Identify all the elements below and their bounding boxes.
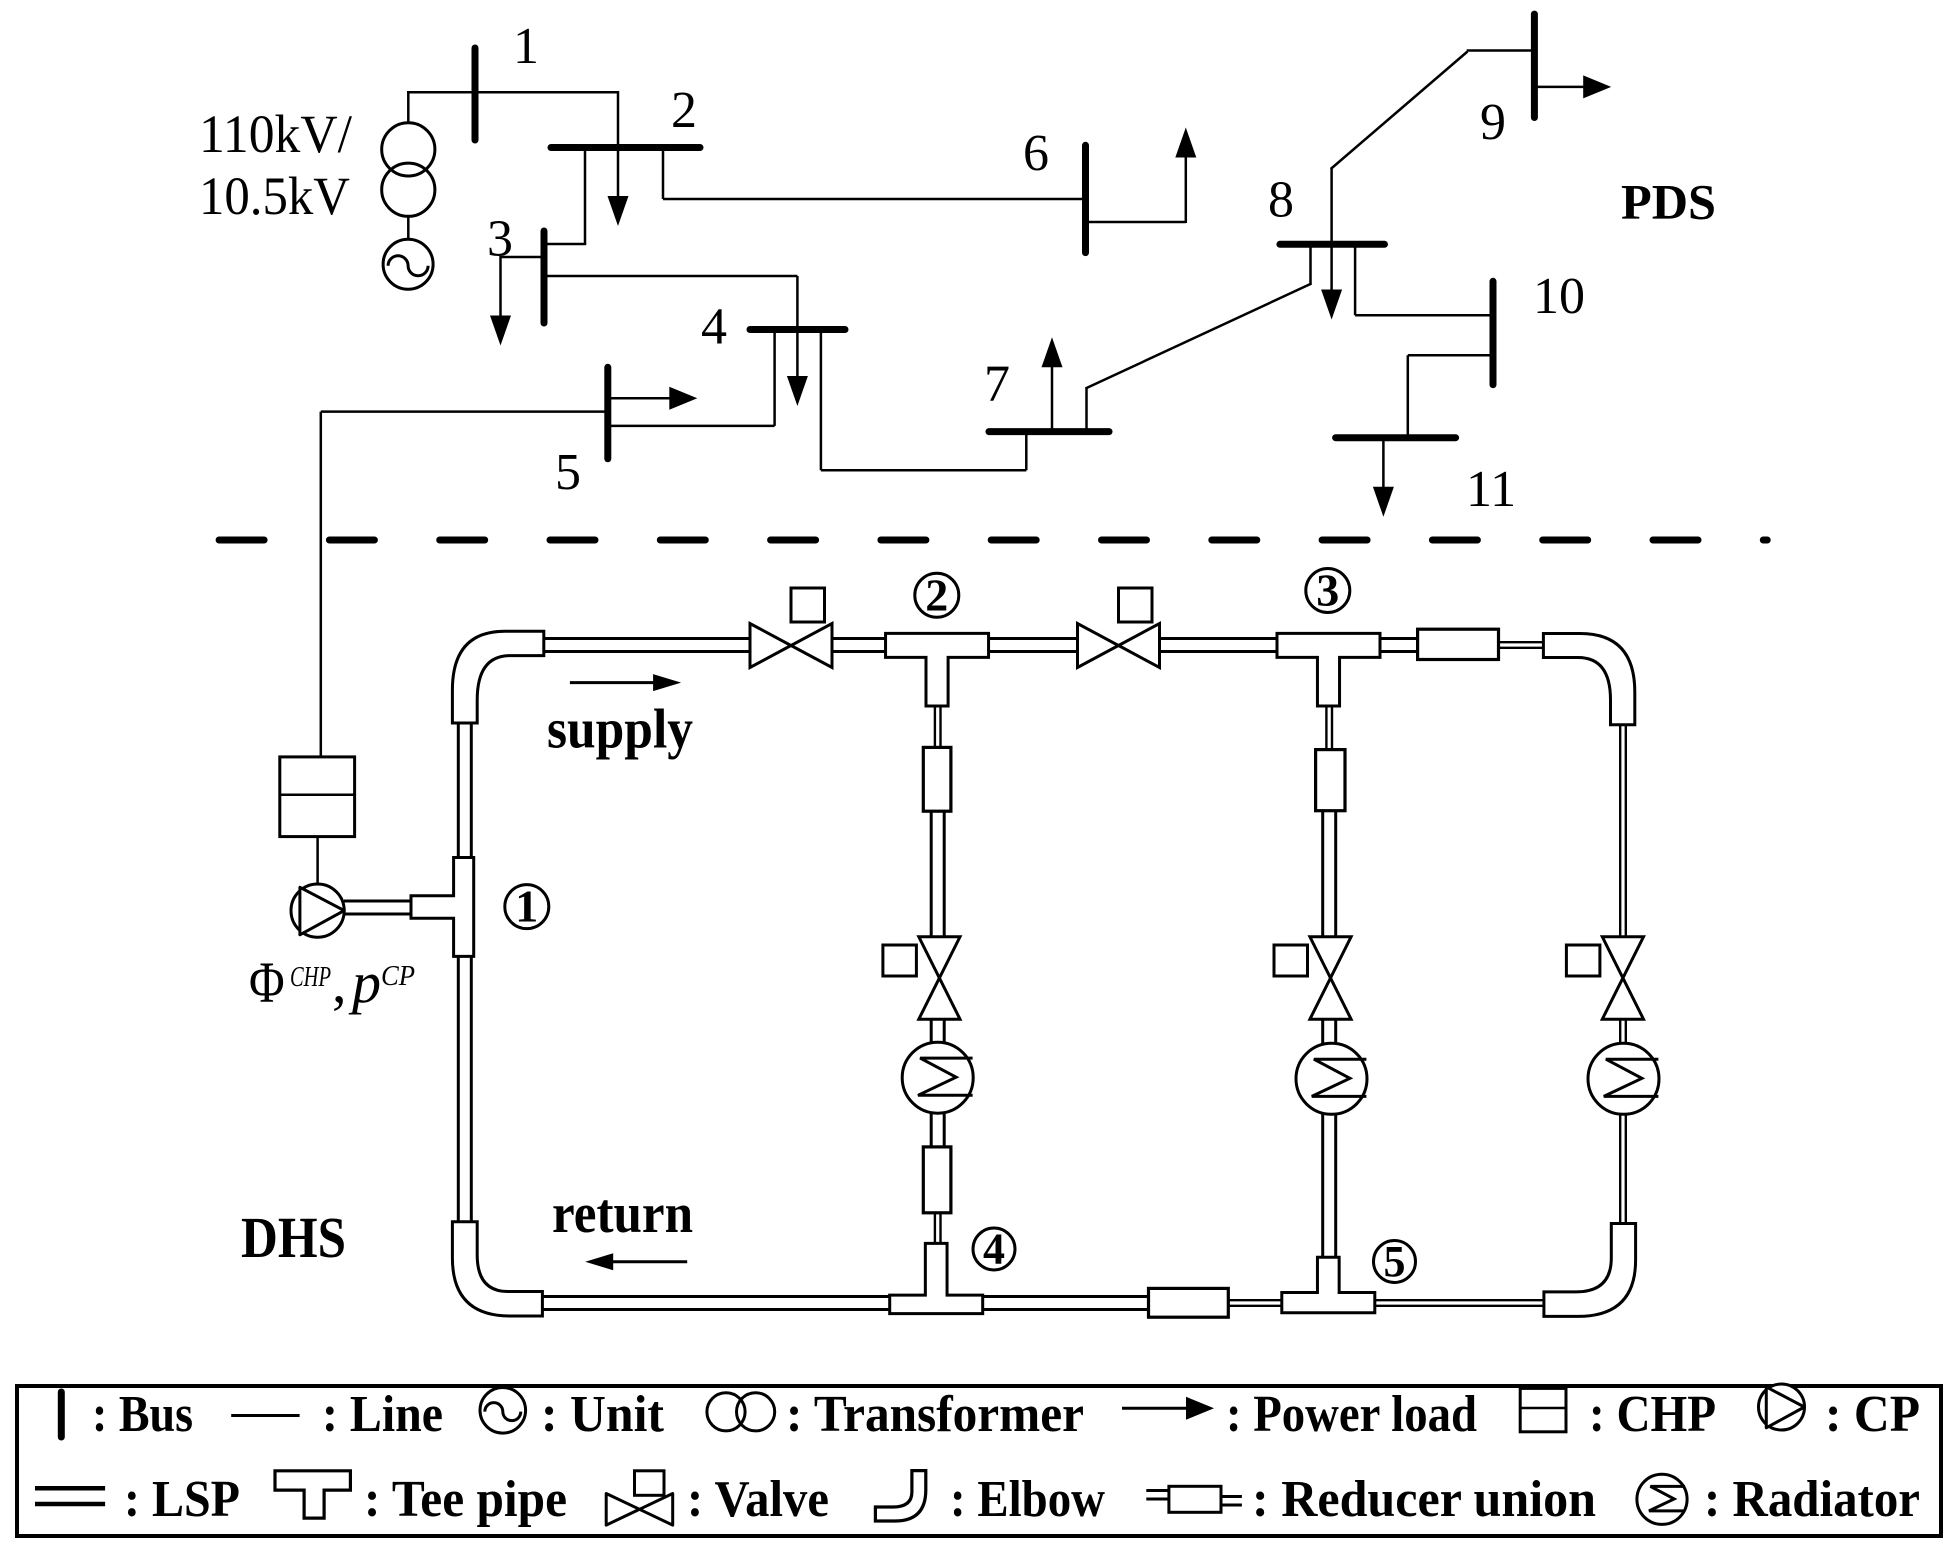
svg-text:2: 2: [671, 82, 697, 139]
legend elbow symbol: [875, 1471, 925, 1521]
svg-text:: CP: : CP: [1825, 1386, 1920, 1443]
supply flow arrow: [570, 681, 655, 684]
svg-text:: Valve: : Valve: [687, 1471, 829, 1528]
svg-text:4: 4: [701, 299, 727, 356]
valve right column: [1566, 945, 1600, 976]
tee pipe node 3: [1277, 633, 1380, 706]
svg-text:: Bus: : Bus: [92, 1386, 193, 1443]
wire down to bus2: [617, 91, 620, 148]
pipe node3 stem to reducer (narrow): [1325, 705, 1327, 751]
bus 2: [551, 144, 700, 151]
power load at bus 6: [1185, 156, 1188, 224]
svg-text:5: 5: [555, 444, 581, 501]
pipe supply node3 to reducer: [1379, 637, 1419, 640]
legend CP symbol: [1759, 1384, 1805, 1430]
power load at bus 5: [608, 397, 672, 400]
power load at bus 2: [617, 148, 620, 199]
power load at bus 7: [1051, 365, 1054, 431]
bus 5: [604, 367, 611, 459]
svg-text:2: 2: [925, 569, 948, 620]
wire bus5 to CHP horizontal: [321, 410, 608, 413]
legend tee pipe symbol: [275, 1471, 350, 1518]
svg-text:1: 1: [515, 881, 538, 932]
wire bus6 load horizontal: [1086, 221, 1186, 224]
tee pipe node 5: [1282, 1257, 1375, 1313]
node 2 label: [915, 573, 959, 617]
legend transformer symbol: [707, 1393, 745, 1431]
wire transformer to bus1 line: [407, 91, 410, 124]
elbow top-left: [452, 631, 543, 723]
svg-text:: Line: : Line: [322, 1386, 443, 1443]
legend line symbol: [231, 1414, 299, 1417]
return flow arrow: [611, 1260, 687, 1263]
node 3 label: [1306, 569, 1350, 613]
pipe supply left vertical: [457, 723, 460, 858]
dashed separator PDS/DHS: [219, 537, 1767, 544]
pipe CP to tee 1: [344, 900, 412, 903]
svg-text:supply: supply: [547, 699, 693, 761]
pipe supply elbow to valve: [544, 637, 750, 640]
wire bus2 to bus3 vertical: [584, 148, 587, 245]
valve on supply line 2: [1119, 588, 1153, 622]
CHP unit box: [280, 757, 355, 837]
svg-text:1: 1: [513, 18, 539, 75]
radiator col3: [1296, 1043, 1367, 1114]
reducer union col3 upper: [1316, 750, 1345, 811]
pipe node2 stem to reducer (narrow): [934, 705, 936, 749]
bus 1: [472, 48, 479, 140]
bus 4: [750, 326, 845, 333]
wire bus7 to bus8 diagonal: [1086, 284, 1312, 389]
svg-text:4: 4: [983, 1224, 1005, 1273]
unit G (generator): [383, 239, 433, 289]
legend unit symbol: [480, 1388, 526, 1434]
wire bus10 to bus11 horizontal: [1408, 354, 1493, 357]
wire bus2 to bus3 horizontal: [544, 243, 586, 246]
pipe valve to radiator col2: [930, 1018, 933, 1043]
power load at bus 4: [796, 330, 799, 379]
legend bus symbol: [58, 1392, 65, 1437]
pipe return reducer to node5 (narrow): [1227, 1299, 1283, 1301]
legend valve symbol: [635, 1471, 665, 1496]
svg-text:CP: CP: [381, 960, 415, 992]
node 1 label: [505, 885, 549, 929]
wire bus5 down to CHP: [320, 412, 323, 758]
wire bus8 to bus10 horizontal: [1355, 314, 1493, 317]
svg-text:: Power load: : Power load: [1226, 1386, 1477, 1443]
svg-text:9: 9: [1480, 94, 1506, 151]
wire CHP to CP: [316, 837, 319, 885]
wire bus8 up vertical: [1330, 168, 1333, 244]
pipe return node5 to elbow (narrow): [1373, 1299, 1545, 1301]
tee pipe node 1: [411, 858, 474, 957]
pipe right radiator to elbow (narrow): [1619, 1113, 1621, 1224]
svg-text:return: return: [552, 1183, 693, 1245]
wire bus2 to bus6 horizontal: [663, 198, 1086, 201]
valve col2: [883, 945, 917, 976]
elbow bottom-left: [452, 1222, 542, 1316]
svg-text:110kV/: 110kV/: [199, 104, 352, 164]
pipe supply reducer to elbow (narrow): [1498, 641, 1545, 643]
legend power load symbol: [1122, 1407, 1188, 1410]
pipe radiator to node5 stem col3: [1321, 1113, 1324, 1258]
pipe reducer to valve col2: [930, 810, 933, 938]
svg-text:: Transformer: : Transformer: [786, 1386, 1084, 1443]
circulation pump CP: [291, 884, 344, 937]
legend border: [17, 1386, 1941, 1536]
bus 10: [1490, 281, 1497, 384]
wire transformer to unit: [407, 216, 410, 239]
wire bus2 to bus6 vertical: [662, 148, 665, 200]
svg-text:: Unit: : Unit: [541, 1386, 665, 1443]
reducer union col2 upper: [923, 747, 951, 811]
wire bus4 to bus7 horizontal: [821, 469, 1026, 472]
tee pipe node 4: [890, 1243, 983, 1313]
elbow top-right: [1543, 634, 1634, 725]
bus 7: [989, 428, 1109, 435]
pipe valve to radiator col3: [1321, 1018, 1324, 1044]
node 5 label: [1374, 1241, 1416, 1283]
svg-text:11: 11: [1466, 461, 1516, 518]
radiator col2: [902, 1042, 973, 1113]
svg-text:CHP: CHP: [290, 961, 331, 993]
bus 9: [1531, 14, 1538, 117]
wire bus8 to bus9 diagonal: [1331, 52, 1468, 170]
node 4 label: [973, 1228, 1015, 1270]
wire bus7 up: [1085, 388, 1088, 432]
valve col3: [1274, 945, 1308, 976]
svg-text:Φ: Φ: [249, 950, 285, 1015]
power load at bus 8: [1330, 244, 1333, 291]
pipe radiator to reducer col2: [930, 1112, 933, 1148]
power load at bus 3: [499, 256, 502, 318]
svg-text:5: 5: [1384, 1237, 1406, 1286]
svg-text:: Tee pipe: : Tee pipe: [364, 1471, 567, 1528]
bus 8: [1280, 241, 1385, 248]
elbow bottom-right: [1544, 1224, 1636, 1317]
svg-text:,: ,: [332, 950, 347, 1015]
pipe right drop to valve (narrow): [1619, 724, 1621, 938]
bus 3: [541, 231, 548, 323]
pipe return node4 to reducer: [982, 1295, 1150, 1298]
legend radiator symbol: [1637, 1474, 1687, 1524]
svg-text:: LSP: : LSP: [124, 1471, 240, 1528]
svg-text:10: 10: [1533, 268, 1585, 325]
svg-text:p: p: [348, 950, 381, 1015]
wire bus8 to bus10 vertical: [1354, 244, 1357, 315]
legend CHP symbol: [1520, 1388, 1566, 1431]
svg-text:7: 7: [984, 356, 1010, 413]
wire bus3 to bus4 vertical: [796, 276, 799, 330]
pipe reducer to valve col3: [1321, 810, 1324, 938]
svg-text:8: 8: [1268, 172, 1294, 229]
svg-text:DHS: DHS: [241, 1205, 346, 1270]
pipe supply valve to node3: [1160, 637, 1278, 640]
power load at bus 9: [1534, 86, 1585, 89]
wire to bus8 vertical: [1309, 244, 1312, 284]
wire bus3 load horizontal: [501, 256, 545, 259]
wire bus4 to bus5 vertical: [773, 330, 776, 426]
valve on supply line 1: [791, 588, 825, 622]
svg-text:: Elbow: : Elbow: [950, 1471, 1105, 1528]
reducer union on return line: [1149, 1288, 1229, 1317]
power load at bus 11: [1382, 438, 1385, 489]
wire bus4 to bus5 horizontal: [608, 425, 775, 428]
svg-text:3: 3: [1316, 565, 1339, 616]
svg-text:PDS: PDS: [1621, 174, 1716, 230]
wire bus10 to bus11 vertical: [1407, 355, 1410, 438]
pipe return left vertical: [457, 956, 460, 1221]
pipe reducer to node4 stem (narrow): [934, 1212, 936, 1245]
tee pipe node 2: [886, 633, 989, 706]
bus 6: [1082, 145, 1089, 252]
svg-text:: Reducer union: : Reducer union: [1252, 1471, 1596, 1528]
transformer T (110kV/10.5kV): [382, 123, 435, 176]
pipe supply node2 to valve: [988, 637, 1078, 640]
svg-text:: CHP: : CHP: [1589, 1386, 1716, 1443]
reducer union on supply line: [1418, 629, 1499, 659]
legend LSP symbol: [35, 1486, 105, 1491]
reducer union col2 lower: [923, 1147, 951, 1213]
wire to bus9 horizontal: [1467, 49, 1535, 52]
wire bus1 horizontal: [407, 91, 618, 94]
svg-text:10.5kV: 10.5kV: [199, 166, 350, 226]
radiator right column: [1588, 1043, 1659, 1114]
wire bus3 to bus4 horizontal: [544, 275, 797, 278]
wire up to bus7: [1025, 432, 1028, 471]
svg-text:6: 6: [1023, 125, 1049, 182]
pipe supply valve to node2: [832, 637, 887, 640]
pipe right valve to radiator (narrow): [1619, 1018, 1621, 1044]
legend reducer union symbol: [1169, 1486, 1221, 1512]
pipe return elbow to node4: [542, 1295, 890, 1298]
wire bus4 to bus7 vertical: [820, 330, 823, 471]
svg-text:: Radiator: : Radiator: [1704, 1471, 1920, 1528]
bus 11: [1336, 434, 1456, 441]
